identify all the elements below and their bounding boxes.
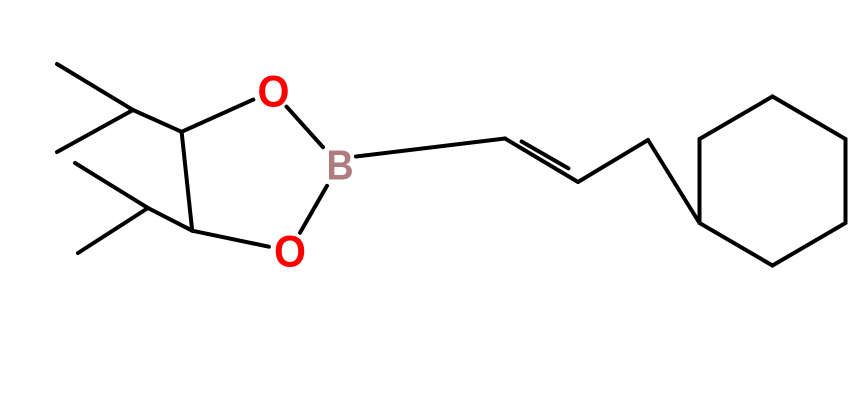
svg-text:O: O (258, 67, 290, 117)
bond C6-methyl down-left (78, 208, 148, 253)
bond C3-C4 (ring carbon to ring carbon) (182, 132, 193, 231)
bond C3-C5 (ring carbon to isopropyl CH top) (133, 110, 182, 132)
bond C3-ring (CH2 down to cyclohexane lower-left vertex) (648, 140, 700, 223)
bond C6-methyl up-left (75, 163, 148, 208)
bond B-O1 (pinacolate ring edge B to top oxygen) (287, 107, 324, 148)
bond B-C1 (boron to vinyl carbon, long shallow bond) (356, 139, 505, 157)
bond C1=C2 inner line (vinyl double bond second stroke) (522, 142, 569, 169)
cyclohexane ring hexagon (700, 97, 846, 266)
svg-text:B: B (326, 143, 353, 189)
bond C4-C6 (ring carbon to isopropyl CH bottom) (148, 208, 192, 231)
bond C1=C2 main line (vinyl double bond) (505, 139, 578, 183)
bond O1-C3 (top oxygen to ring carbon C3) (182, 100, 254, 132)
bond C5-methyl up-left (57, 64, 133, 110)
bond O2-C4 (bottom oxygen to ring carbon C4) (192, 231, 269, 247)
bond C2-C3 (to allylic CH2 apex) (578, 140, 648, 182)
bond B-O2 (pinacolate ring edge B to bottom oxygen) (300, 186, 327, 233)
svg-text:O: O (274, 227, 306, 277)
bond C5-methyl down-left (57, 110, 133, 152)
